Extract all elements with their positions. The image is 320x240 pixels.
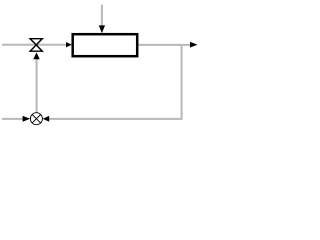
wire: summing point up to valve actuator arrow [36, 59, 38, 113]
wire: setpoint line from left into summing point [2, 118, 24, 120]
arrowhead into plant left edge [66, 42, 72, 47]
arrowhead of feedback into summing point from right [43, 116, 50, 122]
arrowhead of setpoint into summing point from left [23, 116, 31, 122]
arrowhead of actuator signal into valve bottom [33, 52, 39, 59]
arrowhead of disturbance into plant top [99, 25, 105, 33]
summing point X diagonals [32, 115, 40, 123]
wire: input line from left through valve toward plant [2, 44, 67, 46]
wire: feedback branch down and left along bottom [49, 45, 182, 119]
summing point (circle) [30, 113, 42, 125]
plant block (rectangle) [73, 34, 138, 56]
valve V1 (hourglass symbol) [30, 39, 42, 52]
wire: output line from plant to right arrow [138, 44, 191, 46]
wire: disturbance line from top [101, 5, 103, 27]
arrowhead of output at far right [190, 42, 198, 48]
